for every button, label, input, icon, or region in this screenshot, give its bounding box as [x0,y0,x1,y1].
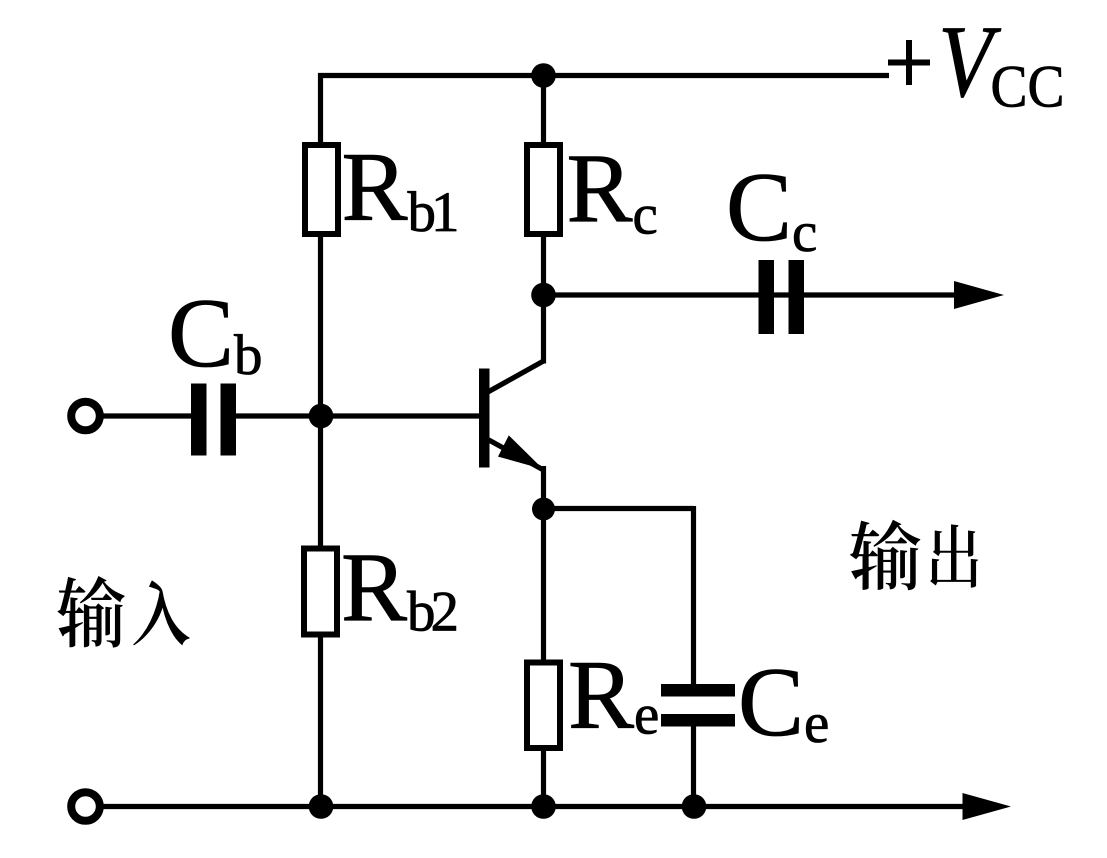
resistor Rc [527,145,560,234]
wire input terminal to Cb [100,413,193,418]
node bottom rail Re junction [531,794,556,819]
wire bottom rail [102,804,968,809]
label output 输出 (shu) [850,520,920,590]
capacitor Ce plates [661,684,735,697]
node emitter junction [532,498,555,521]
input terminal top [71,402,100,431]
wire Rc to collector node [541,234,546,295]
label input 输入 (shu) [57,576,124,648]
input terminal bottom [71,792,100,821]
wire emitter node to Ce branch [541,506,694,511]
svg-text:Cb: Cb [168,279,263,388]
transistor Q1 emitter arrow [498,435,543,469]
resistor Rb1 [305,145,338,234]
wire Cb to base node [234,413,322,418]
label output 输出 (chu) [930,524,978,587]
wire Rb1 branch top [318,73,323,145]
output arrow top [954,281,1004,309]
wire Rb1 to base node [318,234,323,416]
transistor Q1 collector lead [487,361,544,393]
label +VCC plus sign [888,60,930,66]
node bottom rail Ce junction [682,794,707,819]
wire collector output [544,292,961,297]
label input 输入 (ru) [133,580,189,645]
resistor Re [527,663,560,749]
node bottom rail Rb2 junction [309,794,334,819]
svg-text:Rc: Rc [567,135,658,247]
wire collector vertical [541,295,546,364]
output arrow bottom [963,793,1012,820]
wire base node to Rb2 [318,416,323,549]
svg-text:Rb1: Rb1 [342,133,458,244]
svg-text:Ce: Ce [738,648,829,757]
wire Rb2 to bottom rail [318,635,323,807]
resistor Rb2 [304,549,337,635]
capacitor Cb plates [191,384,207,456]
wire Ce branch down to plate [691,506,696,684]
wire Ce plate to bottom rail [691,727,696,807]
svg-text:Rb2: Rb2 [341,534,457,644]
transistor Q1 base bar [479,369,490,468]
wire Re to bottom rail [541,748,546,807]
svg-text:Re: Re [568,641,659,750]
svg-text:Cc: Cc [726,153,817,264]
node collector junction [531,283,556,308]
capacitor Cc plates [759,260,775,334]
wire top supply rail [318,73,889,78]
svg-text:CC: CC [991,54,1065,120]
node supply tap junction [531,63,556,88]
node base junction [309,404,334,429]
wire emitter vertical [541,466,546,512]
transistor Q1 emitter lead [487,439,544,470]
wire emitter node to Re [541,509,546,663]
wire Rc branch top [541,76,546,146]
wire base to transistor [322,413,480,418]
